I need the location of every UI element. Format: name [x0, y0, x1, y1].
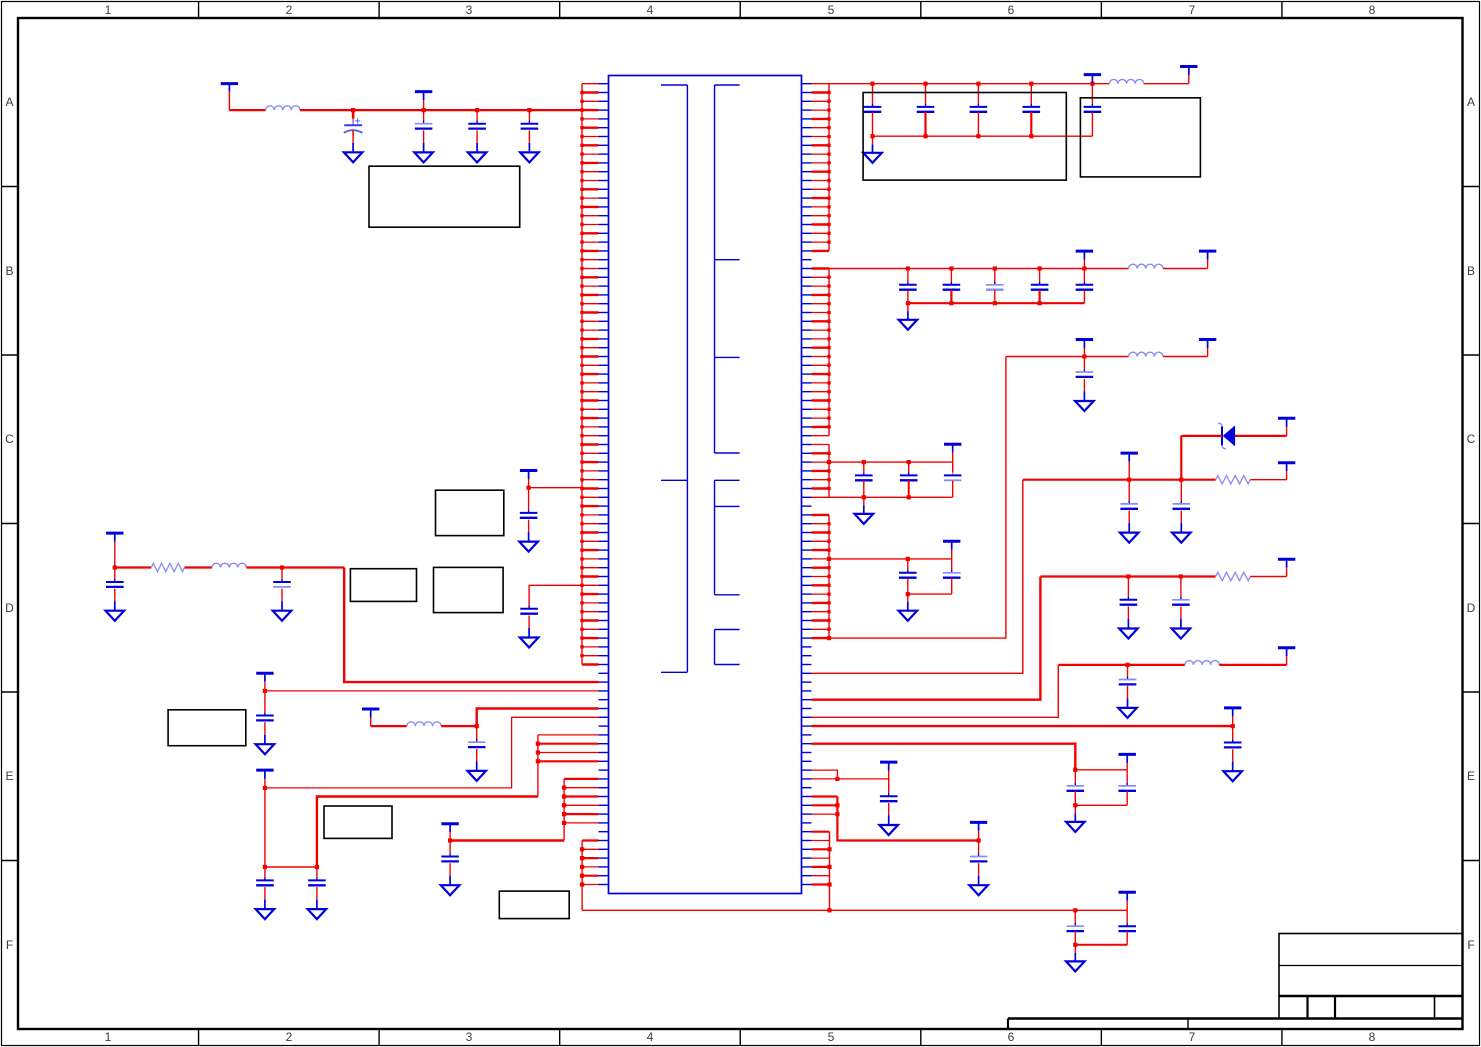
capacitor C29 [880, 779, 898, 801]
power flag P18 [880, 762, 897, 779]
junction dots bus537 [536, 742, 540, 764]
ground GND28 [441, 863, 460, 895]
svg-text:C: C [5, 432, 14, 446]
power flag P20 [1119, 892, 1136, 910]
ground GND21 [520, 616, 539, 648]
junction dots R1 gnd bus [862, 495, 911, 499]
wire pin jog n78 [802, 770, 838, 779]
svg-text:6: 6 [1008, 1030, 1015, 1044]
wire L1 to IC [300, 109, 582, 111]
IC U1 right pin field third (pins) [802, 445, 830, 498]
box label B6 [350, 569, 416, 602]
wire rail row C1 [1023, 479, 1216, 481]
power flag P13 [1278, 418, 1295, 436]
wire L7 to C40 [441, 725, 477, 727]
capacitor C41 [441, 841, 459, 862]
capacitor C34 [520, 609, 538, 614]
capacitor C8 [1023, 84, 1041, 112]
svg-text:5: 5 [828, 1030, 835, 1044]
wire R3 to L6 [185, 566, 213, 568]
junction dot n79 [835, 777, 839, 781]
power flag P21 [520, 471, 537, 488]
junction dots right bus 3 [827, 452, 830, 491]
wire P24 down [264, 788, 266, 867]
inductor L4 [1129, 352, 1163, 356]
power flag P16 [1224, 708, 1241, 726]
wire C40 riser [477, 709, 599, 727]
junction dot row B2 [1082, 354, 1086, 358]
power flag P22 [106, 533, 123, 567]
svg-text:D: D [1467, 601, 1476, 615]
capacitor C12 [986, 269, 1004, 304]
wire C33 to IC [529, 487, 582, 489]
diode D1 (schottky) [1218, 423, 1235, 449]
svg-text:8: 8 [1369, 1030, 1376, 1044]
capacitor C13 [1031, 269, 1049, 304]
junction dots bus582b [580, 847, 584, 886]
wire rail row B2 [1006, 356, 1129, 358]
wire R2 to P14 [1250, 576, 1286, 578]
ground GND11 [1172, 511, 1191, 543]
capacitor C40 [468, 726, 486, 747]
wire R1 to P12 [1250, 479, 1286, 481]
junction dot F gnd bus [1073, 803, 1077, 807]
ground GND13 [1172, 607, 1191, 639]
box label B4 [436, 490, 504, 535]
bus group6 [837, 797, 978, 841]
capacitor C22 [1173, 480, 1191, 509]
capacitor C15 [1076, 357, 1094, 377]
ground GND15 [1223, 749, 1242, 781]
IC right pins group6 [802, 797, 838, 815]
power flag P8 [1199, 340, 1216, 357]
IC U1 internal block bracket 2a [715, 85, 740, 453]
capacitor C19-20 lower stubs [908, 578, 952, 594]
junction dot bottom gnd bus [1073, 943, 1077, 947]
junction dots right bus 1 [827, 91, 830, 244]
IC left pins group n79-84 [564, 779, 608, 823]
power flag P23 [256, 673, 273, 691]
IC U1 left unconnected pins [599, 673, 609, 831]
junction dot row E [1231, 724, 1235, 728]
box label B9 [499, 891, 569, 919]
capacitor C30 [970, 841, 988, 862]
box label B8 [324, 806, 392, 838]
resistor R2 [1216, 572, 1251, 580]
capacitor C9 [1084, 84, 1102, 137]
junction dots row B rail [906, 266, 1087, 270]
box label B1 (top-left) [369, 166, 520, 227]
svg-text:2: 2 [286, 1030, 293, 1044]
capacitor C26 [1224, 726, 1242, 747]
wire C39 riser [317, 797, 538, 868]
junction dots row C1 [1127, 478, 1183, 482]
junction dot R2 gnd bus [906, 592, 910, 596]
bus left group x582.1 [581, 841, 583, 911]
junction dots R2 rail [827, 557, 910, 561]
capacitor C11 [943, 269, 961, 304]
power flag P6 [1199, 251, 1216, 268]
capacitor C37 [256, 691, 274, 721]
inductor L3 [1129, 264, 1163, 268]
ground GND25 [256, 887, 275, 919]
wire P22 to R3 [115, 566, 151, 568]
junction dots row D [1126, 574, 1183, 578]
capacitor C17 [900, 462, 918, 480]
capacitor C16-18 lower stubs [864, 481, 953, 498]
ground GND19 [1066, 945, 1085, 972]
wire P26 to bus564 [450, 839, 564, 841]
ground GND24 [256, 722, 275, 754]
junction dots group6 [835, 803, 839, 816]
svg-text:2: 2 [286, 3, 293, 17]
svg-text:E: E [1467, 769, 1475, 783]
IC left pins group n74-77 [538, 735, 609, 761]
ground bus bottom [1075, 944, 1127, 946]
ground bus F [1075, 804, 1127, 806]
ground GND2 [414, 130, 433, 162]
junction dots right bus 4 [827, 522, 830, 631]
wire bottom net [582, 909, 1075, 911]
wire L3 to P6 [1163, 268, 1208, 270]
ground GND22 [106, 589, 125, 621]
junction dot row F [1073, 768, 1077, 772]
ground bus R1 [829, 496, 953, 498]
wire row F feed [829, 744, 1075, 770]
ground GND14 [1118, 686, 1137, 718]
capacitor C35 [106, 568, 124, 587]
ground GND20 [519, 520, 538, 552]
capacitor C34 stub [528, 585, 530, 609]
wire row D feed vertical [829, 577, 1040, 700]
right pin bus wire 1 [828, 84, 830, 251]
wire row B2 feed vertical [827, 357, 1006, 641]
junction dot C38 top [263, 865, 267, 869]
svg-text:A: A [1467, 95, 1475, 109]
wire F cross [1075, 769, 1127, 771]
junction dot C33 top [527, 486, 531, 490]
capacitor C23 [1120, 577, 1138, 605]
wire R1 group rail [829, 461, 953, 463]
capacitor C4 [521, 110, 539, 129]
power flag P12 [1278, 463, 1295, 480]
power flag P15 [1278, 648, 1295, 665]
ground GND4 [520, 130, 539, 162]
capacitor C27-28 lower stubs [1075, 791, 1127, 805]
resistor R3 [151, 563, 184, 571]
svg-text:8: 8 [1369, 3, 1376, 17]
power flag P11 [1121, 453, 1138, 480]
IC U1 right wire pins [802, 673, 830, 743]
ground GND6 [899, 303, 918, 330]
capacitor C31-32 lower stubs [1075, 931, 1127, 944]
wire row C1 feed vertical [829, 480, 1023, 674]
IC U1 internal block bracket 2c [715, 630, 740, 665]
capacitor C10 [899, 269, 917, 304]
junction dot bottom net at bus7 [827, 908, 831, 912]
junction dots row B gnd bus [906, 301, 1042, 305]
wire C34 to IC [529, 584, 582, 586]
junction dots left bus [580, 91, 583, 658]
capacitor C5 [864, 84, 882, 112]
power flag P24 [256, 770, 273, 788]
wire L6 to C36 [246, 566, 282, 568]
right pin bus wire 2 [828, 269, 830, 436]
capacitor C27 [1067, 770, 1085, 791]
wire rail row E [829, 725, 1233, 727]
ground GND10 [1120, 511, 1139, 543]
ground GND12 [1119, 607, 1138, 639]
bus group7 [829, 832, 831, 911]
capacitor C3 [468, 110, 486, 129]
inductor L5 [1185, 661, 1219, 665]
svg-text:F: F [1467, 938, 1474, 952]
capacitor C16 [855, 462, 873, 480]
wire to C29 [802, 778, 889, 780]
wire P23 to IC [265, 690, 599, 692]
capacitor C28 [1118, 770, 1136, 791]
capacitor C5 lower stub [872, 112, 874, 136]
power flag P19 [970, 822, 987, 840]
wire VCC top-left [229, 109, 265, 111]
junction dot C30 [977, 838, 981, 842]
box label B2 (row A caps) [863, 93, 1066, 181]
junction dot bottom net [1073, 908, 1077, 912]
box label B7 [168, 710, 246, 746]
capacitor C25 [1119, 665, 1137, 685]
svg-text:3: 3 [466, 1030, 473, 1044]
IC U1 right pin field upper (pins) [802, 84, 830, 251]
capacitor C32 [1118, 910, 1136, 931]
capacitor C24 [1172, 577, 1190, 605]
ground GND3 [468, 130, 487, 162]
inductor L1 [266, 106, 300, 110]
junction dots R1 rail [827, 460, 911, 464]
capacitor C1 (polarized) [344, 110, 363, 136]
capacitor C6 lower stub [924, 112, 926, 136]
bus left group x564.1 [563, 779, 565, 841]
power flag P4 [1180, 67, 1197, 84]
junction dots row A rail [870, 82, 1094, 86]
wire VDD rail row B [829, 268, 1129, 270]
wire row D left vertical [344, 568, 598, 683]
capacitor C38 [256, 867, 274, 885]
IC U1 internal block bracket 1 [661, 85, 687, 672]
box label B3 (row A right) [1080, 98, 1200, 177]
wire L5 to P15 [1219, 664, 1286, 666]
right pin bus wire 3 [828, 445, 830, 498]
wire P25 to L7 [371, 725, 407, 727]
svg-text:4: 4 [647, 1030, 654, 1044]
power flag P9 [944, 444, 961, 462]
junction dots row A gnd bus [870, 134, 1033, 138]
ground GND27 [467, 749, 486, 781]
wire L2 to P4 [1144, 83, 1189, 85]
ground GND5 [863, 136, 882, 163]
box label B5 [434, 567, 504, 612]
wire bottom net right [1075, 909, 1127, 911]
junction dot P24 [263, 786, 267, 790]
capacitor C36 [273, 568, 291, 587]
junction dots right bus 2 [827, 276, 830, 429]
junction dot P26 [448, 838, 452, 842]
capacitor C2 [415, 110, 433, 129]
capacitor C19 [899, 559, 917, 578]
power flag P17 [1119, 754, 1136, 769]
power flag P10 [943, 541, 960, 559]
title block [1279, 934, 1463, 1019]
IC U1 right pin field fourth (pins) [802, 515, 830, 638]
ground GND16 [1066, 805, 1085, 832]
wire VDD rail row A [829, 83, 1109, 85]
svg-text:7: 7 [1189, 3, 1196, 17]
svg-text:B: B [5, 264, 13, 278]
svg-text:F: F [6, 938, 13, 952]
power flag P1 (top-left) [221, 84, 238, 111]
power flag P3 [1084, 75, 1101, 84]
svg-text:6: 6 [1008, 3, 1015, 17]
svg-text:B: B [1467, 264, 1475, 278]
junction dots VCC rail [351, 108, 532, 112]
svg-text:+: + [355, 116, 361, 128]
junction dots group7 [827, 847, 831, 886]
IC U1 left pin field with stubs (pins 1-67) [582, 84, 609, 665]
capacitor C8 lower stub [1030, 112, 1032, 136]
wire rail row C3 [1058, 664, 1185, 666]
ground GND8 [855, 497, 874, 524]
wire L4 to P8 [1163, 356, 1208, 358]
capacitor C39 [308, 867, 326, 885]
svg-text:D: D [5, 601, 14, 615]
capacitor C20 [943, 559, 961, 578]
IC U1 right pin field second (pins) [802, 269, 830, 436]
inductor L2 [1109, 79, 1143, 83]
wire diode to rail C1 [1180, 436, 1182, 480]
IC left pins group n86-91 [582, 841, 608, 885]
svg-text:5: 5 [828, 3, 835, 17]
svg-text:4: 4 [647, 3, 654, 17]
title block lower strip [1008, 1019, 1463, 1030]
bus left group x537.9 [537, 735, 539, 797]
ground GND1 [344, 130, 363, 162]
power flag P5 [1076, 251, 1093, 268]
right pin bus wire 4 [828, 515, 830, 638]
ground GND17 [879, 803, 898, 835]
svg-text:C: C [1467, 432, 1476, 446]
ground GND18 [969, 863, 988, 895]
ground GND23 [273, 589, 292, 621]
ground GND26 [308, 887, 327, 919]
capacitor C6 [917, 84, 935, 112]
IC right pins group7 [802, 832, 830, 885]
capacitor C33 [520, 488, 538, 518]
power flag P14 [1278, 559, 1295, 576]
left pin bus wire [581, 84, 583, 665]
junction dot row C3 [1125, 663, 1129, 667]
wire row C3 feed vertical [829, 665, 1058, 717]
capacitor C18 [944, 462, 962, 480]
svg-text:A: A [5, 95, 13, 109]
ground bus row A [873, 135, 1093, 137]
wire diode anode [1235, 435, 1287, 437]
IC U1 right unconnected pins [802, 260, 812, 823]
svg-text:3: 3 [466, 3, 473, 17]
junction dot C40 [475, 724, 479, 728]
junction dot C39 top [315, 865, 319, 869]
wire P24 net to IC [265, 717, 599, 788]
power flag P7 [1076, 340, 1093, 357]
wire rail row D [1040, 575, 1215, 577]
resistor R1 [1216, 476, 1251, 484]
power flag P25 [362, 709, 379, 726]
border row tick marks [2, 187, 1480, 861]
power flag P2 [415, 92, 432, 111]
capacitor C7 [970, 84, 988, 112]
junction dot P23 [263, 689, 267, 693]
ground bus row B [908, 302, 1085, 304]
wire C36 to corner [282, 566, 344, 568]
junction dot C36 [280, 565, 284, 569]
power flag P26 [441, 824, 458, 841]
ground bus R2 [908, 593, 952, 595]
border column tick marks [199, 2, 1282, 1046]
wire R2 group rail [829, 558, 952, 560]
svg-text:E: E [5, 769, 13, 783]
wire C38-C39 link [265, 866, 317, 868]
capacitor C14 [1076, 269, 1094, 304]
IC U1 body [609, 76, 802, 894]
wire diode cathode [1181, 435, 1222, 437]
capacitor C7 lower stub [977, 112, 979, 136]
junction dots bus564 [562, 786, 566, 825]
ground GND9 [899, 594, 918, 621]
capacitor C31 [1067, 910, 1085, 931]
junction dot row D left [113, 565, 117, 569]
svg-text:1: 1 [105, 1030, 112, 1044]
IC U1 internal block bracket 2b [715, 480, 740, 595]
svg-text:1: 1 [105, 3, 112, 17]
svg-text:7: 7 [1189, 1030, 1196, 1044]
ground GND7 [1075, 379, 1094, 411]
inductor L6 [212, 563, 246, 567]
inductor L7 [407, 722, 441, 726]
capacitor C21 [1120, 480, 1138, 509]
